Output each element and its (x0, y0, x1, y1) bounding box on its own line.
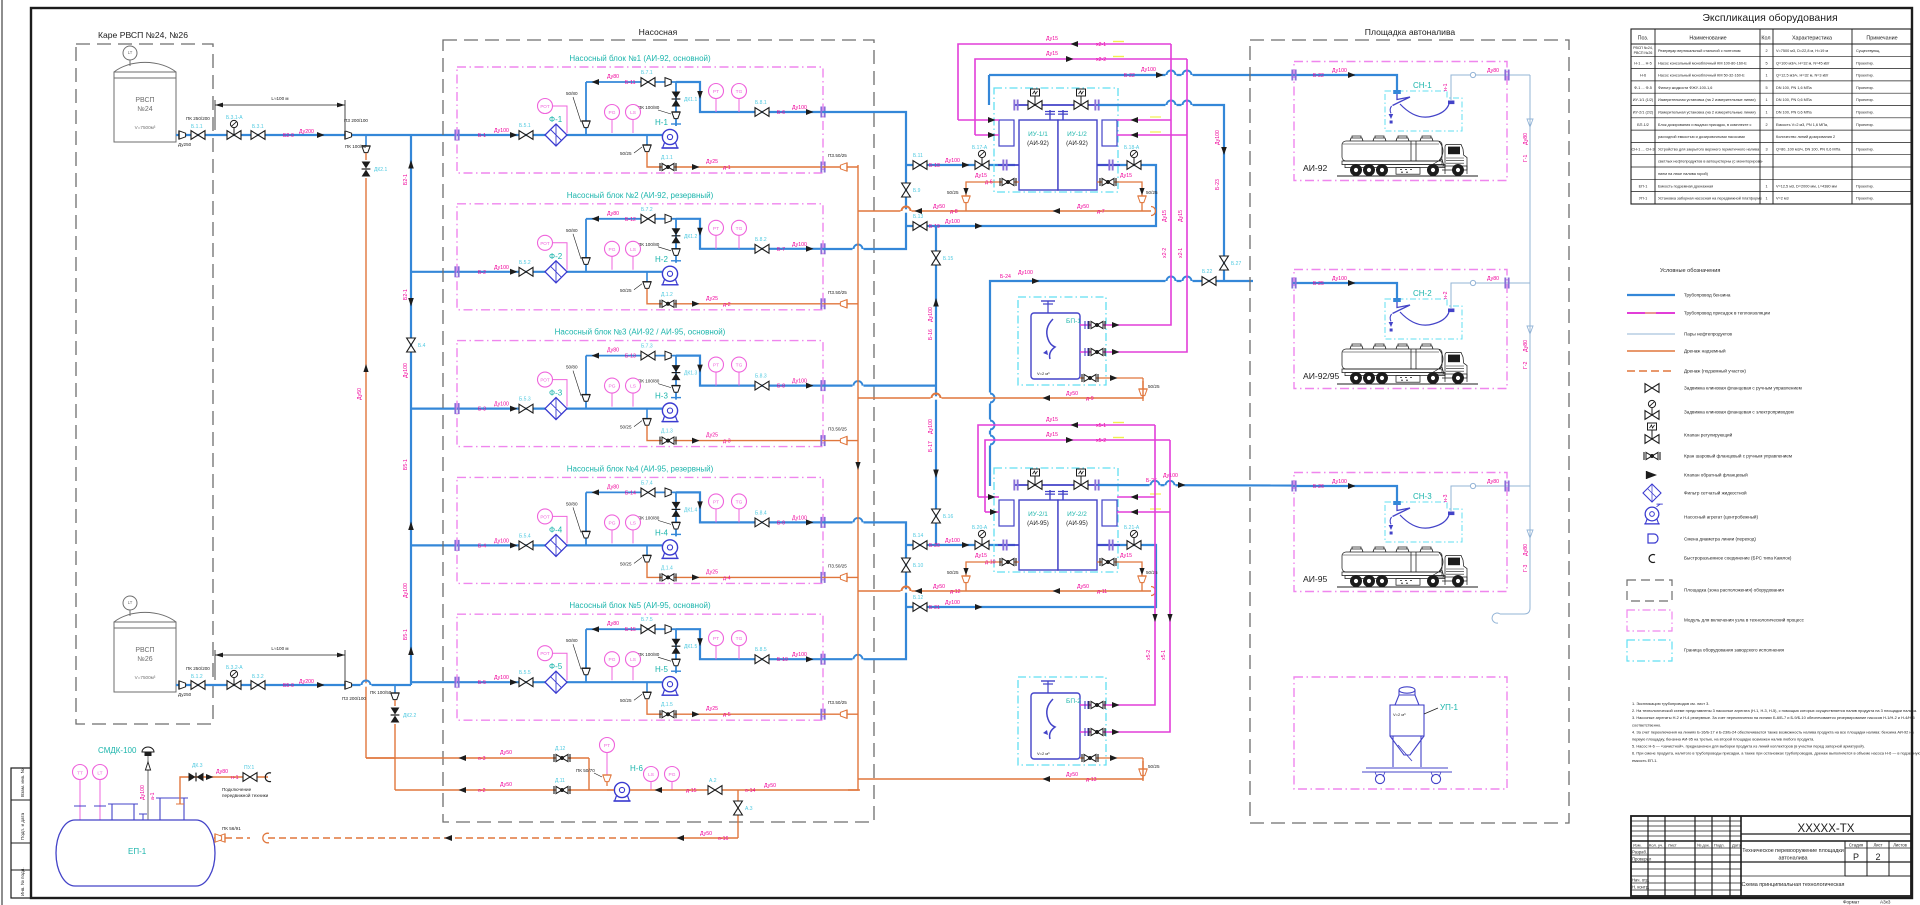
svg-text:А.2: А.2 (709, 778, 717, 784)
svg-text:д-5: д-5 (723, 712, 731, 718)
svg-text:ПК 100/80: ПК 100/80 (638, 515, 660, 520)
svg-text:ПК 250/200: ПК 250/200 (186, 666, 210, 671)
svg-text:Подп. и дата: Подп. и дата (20, 812, 25, 840)
svg-text:50/80: 50/80 (566, 638, 578, 643)
svg-text:д-9: д-9 (1086, 396, 1094, 402)
title block (1631, 816, 1911, 896)
svg-text:1. Экспликацию трубопроводов с: 1. Экспликацию трубопроводов см. лист 3. (1632, 701, 1709, 706)
svg-text:Ф-3: Ф-3 (549, 389, 563, 398)
svg-text:Ду80: Ду80 (1523, 340, 1529, 352)
svg-text:6. При смене продукта, налитог: 6. При смене продукта, налитого в трубоп… (1632, 751, 1920, 756)
valve Б.7.2 (641, 207, 655, 223)
svg-text:Б.5.2: Б.5.2 (519, 260, 531, 266)
outlet manifold of ИУ-1 (1013, 100, 1099, 121)
svg-text:50/25: 50/25 (620, 288, 632, 293)
drain valve Д.1.1 (660, 155, 676, 171)
recirculation line Б-11 (586, 81, 676, 83)
svg-text:Ду100: Ду100 (403, 583, 409, 598)
svg-text:Б-11: Б-11 (625, 80, 636, 86)
svg-text:Модуль для включения узла в те: Модуль для включения узла в технологичес… (1684, 617, 1805, 623)
svg-text:д-10: д-10 (985, 560, 996, 566)
additive unit БП-1 vessel (1031, 301, 1081, 379)
valve Б.20-А (972, 525, 989, 549)
svg-text:Ду250: Ду250 (178, 142, 192, 147)
svg-text:Ду80: Ду80 (1523, 133, 1529, 145)
svg-text:PT: PT (713, 226, 719, 232)
svg-text:Проектир.: Проектир. (1856, 147, 1874, 151)
svg-text:Количество линий дозирования 2: Количество линий дозирования 2 (1776, 135, 1835, 139)
suction line Б-3 (457, 408, 662, 410)
svg-text:Ду100: Ду100 (1018, 270, 1033, 276)
mobile suction unit УП-1 module box (1294, 677, 1507, 789)
pump block 1 module box (457, 67, 823, 173)
svg-text:д-2: д-2 (723, 302, 731, 308)
header V3 (blocks 4-5) (823, 522, 906, 607)
svg-text:PG: PG (609, 110, 616, 116)
instrument РОТ (538, 99, 568, 134)
svg-text:ДК2.1: ДК2.1 (374, 167, 387, 173)
svg-text:БП-1/2: БП-1/2 (1637, 123, 1649, 127)
drain ball valve right (1100, 558, 1116, 566)
svg-text:Б.7.2: Б.7.2 (641, 207, 653, 213)
svg-text:LS: LS (630, 384, 636, 390)
svg-text:L≈100 м: L≈100 м (271, 96, 288, 101)
svg-text:Ду80: Ду80 (607, 484, 619, 490)
pump drain д-1 (620, 135, 651, 156)
pump block 3 module box (457, 341, 823, 447)
additive injection box right (1102, 120, 1117, 146)
svg-text:емкость ЕП-1.: емкость ЕП-1. (1632, 758, 1658, 763)
svg-text:Б-13: Б-13 (625, 354, 636, 360)
svg-text:Ду50: Ду50 (1066, 391, 1078, 397)
line Б-18 to ИУ-1/1 (906, 158, 1015, 169)
pump block 2 module box (457, 204, 823, 310)
svg-text:Ду100: Ду100 (792, 242, 807, 248)
valve Б.8.5 (755, 647, 769, 663)
valve А.2 (708, 778, 722, 794)
bay 2 petrol line Б-25 (1291, 276, 1397, 299)
БП-1 drain collector д-9 (858, 381, 1143, 402)
svg-text:V=12,5 м3, D=2000 мм, L=4380 м: V=12,5 м3, D=2000 мм, L=4380 мм (1776, 184, 1837, 188)
drain д-6 right (1097, 173, 1158, 211)
svg-text:V=7500м³: V=7500м³ (135, 675, 156, 680)
bay 3 truck АИ-95 (1303, 547, 1478, 587)
svg-text:ПЗ.50/25: ПЗ.50/25 (828, 153, 847, 158)
svg-text:Ду100: Ду100 (928, 419, 934, 434)
svg-text:Ду15: Ду15 (1178, 210, 1184, 222)
svg-text:Ду25: Ду25 (706, 569, 718, 575)
svg-text:Нач. отд.: Нач. отд. (1632, 878, 1649, 883)
svg-text:Ду100: Ду100 (1215, 130, 1221, 145)
svg-text:Б.18-А: Б.18-А (1124, 145, 1140, 151)
additive outlet х5-2 (1080, 701, 1128, 709)
svg-text:Емкость V=2 м3, PN 1,6 МПа,: Емкость V=2 м3, PN 1,6 МПа, (1776, 123, 1828, 127)
svg-text:PG: PG (669, 772, 676, 778)
svg-text:V=2 м³: V=2 м³ (1393, 712, 1406, 717)
instrument TG (732, 84, 747, 113)
svg-text:Смена диаметра линии (переход): Смена диаметра линии (переход) (1684, 537, 1756, 542)
line Б-22 to bay 1 (989, 67, 1293, 79)
svg-text:ПЗ.50/25: ПЗ.50/25 (828, 700, 847, 705)
svg-text:Ду80: Ду80 (607, 74, 619, 80)
instrument РОТ (538, 646, 568, 681)
svg-text:Ф-1 ... Ф-5: Ф-1 ... Ф-5 (1634, 86, 1652, 90)
svg-text:Задвижка клиновая фланцевая с: Задвижка клиновая фланцевая с ручным упр… (1684, 386, 1802, 391)
svg-text:TG: TG (736, 363, 743, 369)
additive riser x2-2 (1128, 59, 1187, 352)
svg-text:Ду100: Ду100 (494, 675, 509, 681)
svg-text:Ду100: Ду100 (945, 538, 960, 544)
svg-text:РОТ: РОТ (540, 241, 550, 246)
svg-text:РВСП №24,: РВСП №24, (1633, 46, 1653, 50)
valve Б.17-А (972, 145, 989, 169)
УП-1 unit (1362, 687, 1452, 784)
loading bay 1 module box (1294, 62, 1507, 181)
filter Ф-5 (545, 662, 567, 693)
svg-text:Проектир.: Проектир. (1856, 74, 1874, 78)
valve Б.5.5 (519, 670, 533, 686)
control valve 1 (1028, 469, 1042, 489)
svg-text:расходной емкостью и дозировоч: расходной емкостью и дозировочными насос… (1658, 135, 1745, 139)
svg-text:Д.11: Д.11 (555, 778, 565, 784)
recirculation line Б-14 (586, 491, 676, 493)
svg-text:Кол: Кол (1761, 36, 1770, 42)
svg-text:Задвижка клиновая фланцевая с: Задвижка клиновая фланцевая с электропри… (1684, 410, 1794, 415)
drain stub to trunk (823, 290, 858, 308)
additive unit БП-2 factory boundary (1018, 677, 1106, 765)
svg-text:Д.1.1: Д.1.1 (661, 155, 673, 161)
additive injection box left (999, 500, 1014, 526)
svg-text:TG: TG (736, 226, 743, 232)
svg-text:Б-9: Б-9 (777, 520, 785, 526)
instrument PT (709, 357, 724, 386)
svg-text:3: 3 (1765, 147, 1767, 151)
svg-text:ЕП-1: ЕП-1 (128, 847, 147, 856)
svg-text:д-3: д-3 (723, 439, 731, 445)
svg-text:Н-3: Н-3 (655, 392, 668, 401)
pump discharge riser with check ДК1.1 (638, 82, 697, 126)
drain stub to trunk (823, 153, 858, 171)
svg-text:Лист: Лист (1873, 843, 1882, 848)
instrument LS (626, 515, 641, 544)
svg-text:Проектир.: Проектир. (1856, 86, 1874, 90)
svg-text:Ду100: Ду100 (140, 785, 146, 800)
svg-text:РВСП: РВСП (135, 647, 154, 654)
svg-text:Насосный блок №5 (АИ-95, основ: Насосный блок №5 (АИ-95, основной) (569, 601, 711, 610)
svg-text:Ду100: Ду100 (792, 379, 807, 385)
svg-text:Б.5.5: Б.5.5 (519, 670, 531, 676)
svg-text:А3х3: А3х3 (1880, 900, 1891, 905)
svg-text:Ду100: Ду100 (494, 265, 509, 271)
svg-text:д-7: д-7 (1097, 209, 1105, 215)
svg-text:Б5-1: Б5-1 (403, 629, 409, 640)
instrument PT (709, 631, 724, 660)
svg-text:Проектир.: Проектир. (1856, 111, 1874, 115)
svg-text:Б.1.1: Б.1.1 (191, 124, 203, 130)
valve Б.5.3 (519, 397, 533, 413)
svg-text:Разраб.: Разраб. (1632, 850, 1647, 855)
svg-text:Установка заборная насосная на: Установка заборная насосная на передвижн… (1658, 197, 1762, 201)
svg-text:СН-1: СН-1 (1413, 81, 1432, 90)
svg-text:Б-25: Б-25 (1313, 281, 1324, 287)
svg-text:Ду80: Ду80 (1487, 479, 1499, 485)
svg-text:Ду100: Ду100 (928, 307, 934, 322)
svg-text:Ду100: Ду100 (1332, 68, 1347, 74)
mobile equipment connection (176, 763, 271, 804)
discharge line Б-10 (676, 629, 823, 659)
svg-text:х5-2: х5-2 (1096, 438, 1106, 444)
bay 1 vapor return (1451, 72, 1530, 100)
svg-text:50/80: 50/80 (566, 228, 578, 233)
svg-text:ИУ-2/2: ИУ-2/2 (1067, 511, 1087, 518)
svg-text:Измерительная установка (на 2: Измерительная установка (на 2 измеритель… (1658, 98, 1756, 102)
inlet couplings ИУ-1 (998, 160, 1120, 171)
recirculation riser (566, 82, 590, 135)
header V2 (block 3) (935, 226, 937, 545)
svg-text:1: 1 (1765, 197, 1767, 201)
svg-text:Ду100: Ду100 (1332, 479, 1347, 485)
instrument PT (709, 84, 724, 113)
additive injection box right (1102, 500, 1117, 526)
drain of БП-2 (1080, 754, 1160, 781)
svg-text:ДК1.4: ДК1.4 (684, 507, 697, 513)
svg-text:Б.12: Б.12 (913, 595, 923, 601)
jumps on ИУ-1 outlet (1166, 101, 1193, 106)
СМДК-100 breather (98, 746, 154, 756)
drain valve Д.1.3 (660, 429, 676, 445)
instrument LS (626, 105, 641, 134)
valve Б.7.3 (641, 344, 655, 360)
svg-text:№ док.: № док. (1697, 843, 1710, 848)
svg-text:Q=80..100 м3/ч, DN 100, PN 0,6: Q=80..100 м3/ч, DN 100, PN 0,6 МПа (1776, 147, 1841, 151)
line Б-19 to ИУ-1/2 (906, 165, 1156, 230)
bay 3 loading arm СН-3 (1385, 492, 1462, 542)
svg-text:LT: LT (128, 50, 133, 55)
branch to pump block 2 (411, 271, 457, 273)
svg-text:50/25: 50/25 (1148, 384, 1160, 389)
svg-text:2: 2 (1765, 49, 1767, 53)
line Б-22 riser (988, 75, 990, 105)
svg-text:ДК1.2: ДК1.2 (684, 234, 697, 240)
svg-text:Условные обозначения: Условные обозначения (1660, 268, 1720, 274)
svg-text:Примечание: Примечание (1866, 36, 1897, 42)
svg-text:1: 1 (1765, 74, 1767, 78)
instrument TT (73, 765, 88, 821)
svg-text:ДК2.2: ДК2.2 (403, 713, 416, 719)
valve Б.8.3 (755, 374, 769, 390)
ЕП-1 drain inlet (214, 834, 250, 842)
svg-text:Б.10: Б.10 (913, 563, 923, 569)
pump Н-2 (655, 255, 679, 285)
svg-text:Н-2: Н-2 (655, 255, 668, 264)
svg-text:Ду80: Ду80 (607, 348, 619, 354)
tank 24 outlet reducer (179, 131, 186, 139)
svg-text:РВСП №26: РВСП №26 (1634, 51, 1653, 55)
svg-text:БП-2: БП-2 (1066, 698, 1081, 705)
svg-text:Ду80: Ду80 (216, 769, 228, 775)
svg-text:Ду15: Ду15 (1120, 553, 1132, 559)
drain ball valve left (1000, 178, 1016, 186)
svg-text:Наименование: Наименование (1689, 36, 1726, 42)
svg-text:Лист: Лист (1668, 843, 1677, 848)
valve Б.8.4 (755, 510, 769, 526)
svg-text:Клапан обратный фланцевый: Клапан обратный фланцевый (1684, 472, 1748, 478)
svg-text:Б-8: Б-8 (777, 384, 785, 390)
svg-text:СН-3: СН-3 (1413, 492, 1432, 501)
svg-text:РОТ: РОТ (540, 651, 550, 656)
svg-text:Стадия: Стадия (1849, 843, 1863, 848)
svg-text:PT: PT (713, 499, 719, 505)
svg-text:Пары нефтепродуктов: Пары нефтепродуктов (1684, 332, 1733, 337)
svg-text:Насосный блок №1 (АИ-92, основ: Насосный блок №1 (АИ-92, основной) (569, 54, 711, 63)
instrument PT near Н-6 (600, 738, 615, 776)
filter Ф-4 (545, 525, 567, 556)
feed trunk Б2-1/Б5-1 (408, 135, 414, 685)
svg-text:Б.3.2-А: Б.3.2-А (226, 665, 243, 671)
svg-text:Б.3.1: Б.3.1 (252, 124, 264, 130)
svg-text:ПК 100/80: ПК 100/80 (638, 105, 660, 110)
svg-text:Схема принципиальная технологи: Схема принципиальная технологическая (1742, 882, 1845, 888)
svg-text:Ду50: Ду50 (500, 782, 512, 788)
svg-text:Ду15: Ду15 (1046, 432, 1058, 438)
tank ЕП-1 (56, 798, 215, 886)
drain stub to trunk (823, 427, 858, 445)
drain tee at x395 with check ДК2.2 (370, 685, 416, 723)
instrument PG at Н-6 (665, 767, 680, 791)
instrument РОТ (538, 372, 568, 407)
svg-text:Насосная: Насосная (639, 27, 678, 37)
БП-2 drain collector д-13 (858, 761, 1143, 783)
svg-text:Б.8.4: Б.8.4 (755, 510, 767, 516)
svg-text:д-6: д-6 (985, 180, 993, 186)
additive line х5-2 (985, 432, 1170, 512)
svg-text:Б.11: Б.11 (913, 153, 923, 159)
svg-text:Б.8.3: Б.8.3 (755, 374, 767, 380)
control valve 2 (1074, 469, 1088, 489)
svg-text:Н-6: Н-6 (630, 764, 643, 773)
svg-text:Ду100: Ду100 (494, 128, 509, 134)
svg-text:Б-2: Б-2 (478, 270, 486, 276)
branch to pump block 4 (411, 544, 457, 546)
instrument LS at Н-6 (644, 767, 659, 791)
svg-text:ДК1.5: ДК1.5 (684, 644, 697, 650)
svg-text:Ду100: Ду100 (792, 652, 807, 658)
svg-text:Ду25: Ду25 (706, 433, 718, 439)
svg-text:УП-1: УП-1 (1440, 703, 1458, 712)
svg-text:2: 2 (1875, 852, 1880, 862)
svg-text:LT: LT (97, 771, 102, 777)
svg-text:Ф-4: Ф-4 (549, 525, 563, 534)
svg-text:Г-1: Г-1 (1523, 154, 1529, 162)
svg-text:н-1: н-1 (1443, 83, 1449, 91)
svg-text:Ду50: Ду50 (500, 750, 512, 756)
vapor header (1492, 75, 1530, 623)
svg-text:Ду80: Ду80 (1523, 544, 1529, 556)
ИУ-1 outlet to Б-23 (1098, 105, 1227, 281)
pipe Б2-0 from tank 24 (176, 134, 411, 136)
svg-text:Граница оборудования заводског: Граница оборудования заводского исполнен… (1684, 648, 1785, 653)
svg-text:СМДК-100: СМДК-100 (98, 746, 137, 755)
svg-text:Б-23: Б-23 (1215, 179, 1221, 190)
instrument LT (93, 765, 108, 821)
svg-text:1: 1 (1765, 111, 1767, 115)
tank РВСП №26 (114, 596, 176, 692)
pump drain д-4 (620, 545, 651, 566)
pump Н-5 (655, 665, 679, 695)
svg-text:Ду50: Ду50 (1077, 204, 1089, 210)
recirculation riser (566, 492, 590, 545)
line Б-20 to ИУ-2/1 (906, 538, 1015, 549)
metering unit ИУ-2/1 box (1019, 500, 1058, 570)
svg-text:Н-1: Н-1 (655, 118, 668, 127)
svg-text:Листов: Листов (1893, 843, 1907, 848)
svg-text:РОТ: РОТ (540, 104, 550, 109)
svg-text:Трубопровод бензина: Трубопровод бензина (1684, 293, 1731, 298)
pump Н-3 (655, 392, 679, 422)
valve Б.5.4 (519, 533, 533, 549)
instrument PG (605, 515, 620, 544)
svg-text:Б.3.1-А: Б.3.1-А (226, 115, 243, 121)
svg-text:АИ-95: АИ-95 (1303, 574, 1328, 584)
instrument LS (626, 378, 641, 407)
metering skid ИУ-1 factory boundary (994, 88, 1118, 192)
pump Н-6 (607, 764, 643, 801)
svg-text:Б-7: Б-7 (777, 247, 785, 253)
svg-text:а-1: а-1 (150, 792, 156, 800)
svg-text:Характеристика: Характеристика (1792, 36, 1832, 42)
svg-text:Ду250: Ду250 (178, 692, 192, 697)
drain riser x395 down (366, 724, 395, 758)
pump drain д-3 (620, 409, 651, 430)
svg-text:д-1: д-1 (723, 165, 731, 171)
svg-text:TG: TG (736, 89, 743, 95)
valve Б.5.2 (519, 260, 533, 276)
svg-text:DN 100, PN 0,6 МПа: DN 100, PN 0,6 МПа (1776, 98, 1813, 102)
svg-text:Трубопровод присадок в теплоиз: Трубопровод присадок в теплоизоляции (1684, 311, 1771, 316)
svg-text:Ду50: Ду50 (700, 831, 712, 837)
svg-text:(АИ-95): (АИ-95) (1066, 520, 1088, 527)
instrument РОТ (538, 509, 568, 544)
valve Б.13 (913, 214, 927, 230)
svg-text:Формат: Формат (1843, 900, 1860, 905)
svg-text:Д.12: Д.12 (555, 746, 566, 752)
svg-text:Ду25: Ду25 (706, 296, 718, 302)
svg-text:Б2-1: Б2-1 (403, 174, 409, 185)
svg-text:ПК 50/70: ПК 50/70 (576, 768, 595, 773)
ИУ-2 outlet line Б-26 to bay 3 (1098, 473, 1293, 488)
svg-text:н-2: н-2 (1443, 291, 1449, 299)
suction line Б-5 (457, 681, 662, 683)
valve Б.1.1 (191, 124, 205, 139)
svg-text:ПК 100/80: ПК 100/80 (638, 379, 660, 384)
svg-text:50/25: 50/25 (620, 561, 632, 566)
svg-text:Б-15: Б-15 (625, 627, 636, 633)
drain collector д-7 (858, 204, 1156, 216)
svg-text:Б-14: Б-14 (625, 490, 636, 496)
svg-text:Ду50: Ду50 (1077, 584, 1089, 590)
svg-text:х2-1: х2-1 (1178, 248, 1184, 258)
pump block 5 module box (457, 614, 823, 720)
svg-text:V=2 м3: V=2 м3 (1776, 197, 1789, 201)
bay 2 loading arm СН-2 (1385, 289, 1462, 339)
svg-text:Ду15: Ду15 (1046, 51, 1058, 57)
svg-text:Ду15: Ду15 (1046, 417, 1058, 423)
svg-text:V=2 м³: V=2 м³ (1037, 751, 1050, 756)
drain trunk (848, 165, 861, 790)
svg-text:д-12: д-12 (950, 589, 961, 595)
svg-text:1: 1 (1765, 98, 1767, 102)
drain д-10 right (1097, 553, 1158, 591)
